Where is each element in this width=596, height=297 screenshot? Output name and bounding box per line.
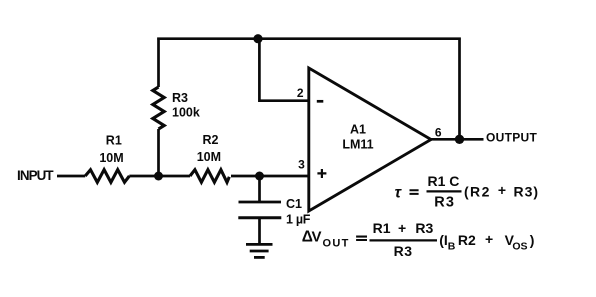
label R2 bbox=[203, 133, 219, 147]
label LM11 bbox=[342, 137, 373, 151]
label 100k (R3 value) bbox=[172, 106, 200, 120]
op-amp non-inverting input marker (plus) bbox=[317, 169, 326, 178]
junction node B (R2/C1/pin 3) bbox=[255, 172, 264, 181]
wire input lead bbox=[57, 175, 85, 178]
svg-text:6: 6 bbox=[435, 126, 442, 140]
svg-text:3: 3 bbox=[298, 158, 305, 172]
wire top feedback rail bbox=[157, 37, 460, 40]
svg-text:R3: R3 bbox=[415, 220, 433, 236]
formula delta Vout = ((R1 + R3)/R3)(Ib R2 + Vos) bbox=[302, 220, 535, 259]
svg-text:10M: 10M bbox=[99, 151, 123, 165]
svg-text:(R2: (R2 bbox=[464, 184, 491, 200]
svg-text:10M: 10M bbox=[197, 150, 221, 164]
svg-text:V: V bbox=[312, 228, 322, 245]
label 10M (R1 value) bbox=[99, 151, 123, 165]
label pin 3 bbox=[298, 158, 305, 172]
svg-text:R3: R3 bbox=[394, 243, 413, 259]
svg-text:C1: C1 bbox=[286, 197, 302, 211]
svg-text:(I: (I bbox=[439, 232, 448, 248]
label pin 6 bbox=[435, 126, 442, 140]
svg-text:R1: R1 bbox=[106, 134, 122, 148]
svg-text:1 µF: 1 µF bbox=[286, 213, 311, 227]
label pin 2 bbox=[297, 86, 304, 100]
svg-text:R1: R1 bbox=[373, 220, 391, 236]
junction output node bbox=[455, 135, 464, 144]
op-amp inverting input marker (minus) bbox=[317, 100, 324, 103]
svg-text:R3: R3 bbox=[434, 195, 455, 211]
formula tau = (R1 C / R3)(R2 + R3) bbox=[395, 173, 540, 211]
OUTPUT label bbox=[486, 131, 537, 145]
svg-text:100k: 100k bbox=[172, 106, 200, 120]
label R3 bbox=[172, 91, 188, 105]
svg-text:): ) bbox=[530, 232, 535, 248]
junction node A (R1/R2/R3) bbox=[154, 172, 163, 181]
svg-text:A1: A1 bbox=[350, 123, 366, 137]
wire R3 top riser bbox=[157, 38, 160, 88]
label 1 uF (C1 value) bbox=[286, 213, 311, 227]
label A1 bbox=[350, 123, 366, 137]
wire output bbox=[431, 138, 484, 141]
svg-text:LM11: LM11 bbox=[342, 137, 373, 151]
svg-text:R3): R3) bbox=[514, 184, 540, 200]
label C1 bbox=[286, 197, 302, 211]
ground bbox=[246, 244, 273, 257]
wire node B to pin 3 bbox=[260, 175, 309, 178]
label R1 bbox=[106, 134, 122, 148]
wire feedback drop from output node bbox=[458, 38, 461, 140]
label 10M (R2 value) bbox=[197, 150, 221, 164]
wire R3 bottom to node A bbox=[157, 129, 160, 176]
resistor R2 bbox=[190, 170, 229, 183]
svg-text:R3: R3 bbox=[172, 91, 188, 105]
svg-text:R1 C: R1 C bbox=[428, 173, 460, 189]
svg-text:τ: τ bbox=[395, 185, 403, 202]
svg-text:B: B bbox=[448, 241, 456, 253]
wire C1 to ground bbox=[258, 219, 261, 244]
capacitor C1 top plate bbox=[239, 201, 282, 204]
wire top rail to pin 2 bbox=[259, 39, 308, 101]
svg-text:OUTPUT: OUTPUT bbox=[486, 131, 537, 145]
svg-text:R2: R2 bbox=[203, 133, 219, 147]
resistor R3 bbox=[153, 87, 164, 129]
svg-text:INPUT: INPUT bbox=[17, 168, 54, 183]
junction on top rail (node C) bbox=[253, 34, 262, 43]
capacitor C1 bottom plate bbox=[238, 216, 281, 219]
op-amp A1 triangle bbox=[309, 68, 431, 211]
wire R2 to node B bbox=[231, 175, 260, 178]
svg-text:+: + bbox=[398, 220, 406, 236]
svg-text:+: + bbox=[485, 231, 493, 247]
INPUT label bbox=[17, 168, 54, 183]
svg-text:OS: OS bbox=[512, 241, 527, 253]
resistor R1 bbox=[85, 170, 129, 183]
wire node B down to C1 bbox=[258, 176, 261, 201]
svg-text:OUT: OUT bbox=[323, 238, 350, 250]
svg-text:+: + bbox=[498, 182, 506, 198]
svg-text:2: 2 bbox=[297, 86, 304, 100]
wire R1 to node A bbox=[129, 175, 190, 178]
svg-text:R2: R2 bbox=[458, 232, 476, 248]
